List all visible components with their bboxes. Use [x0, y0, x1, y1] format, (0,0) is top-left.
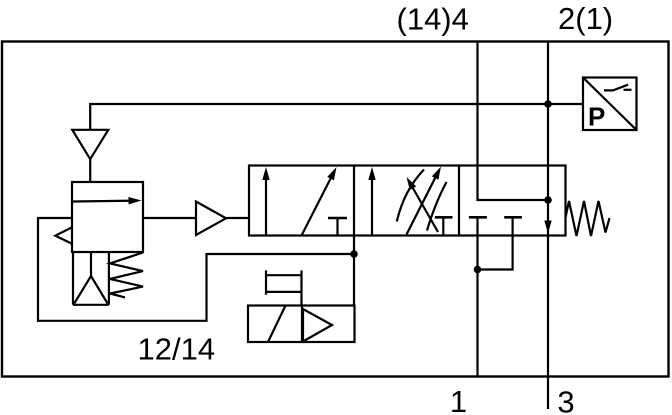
manual override — [266, 270, 302, 305]
wire T3b stem elbow — [478, 217, 513, 269]
wire to pressure switch — [548, 103, 583, 105]
regulator exhaust seat — [73, 252, 109, 305]
pilot triangle — [303, 309, 332, 342]
wire port 2 vertical (x=548) — [547, 42, 549, 409]
cell1 diagonal arrow — [302, 177, 332, 236]
regulator flow arrow — [73, 200, 131, 203]
svg-text:12/14: 12/14 — [138, 332, 216, 367]
solenoid coil slash — [268, 306, 286, 343]
wire port 1 (T3a stem to bottom border) — [476, 217, 478, 376]
cell2 up arrow — [371, 178, 373, 235]
valve divider 1 — [353, 166, 355, 236]
cell3 blocked port T a — [469, 216, 487, 219]
svg-text:2(1): 2(1) — [558, 1, 613, 36]
wire amplifier to valve — [226, 217, 249, 219]
wire port 4 vertical (x=477) — [476, 42, 478, 166]
exhaust filter triangle (top of regulator) — [72, 130, 108, 159]
cell2 blocked port T — [435, 217, 453, 235]
cell2 arrow up-right — [407, 176, 437, 234]
cell3 blocked port T b — [504, 216, 522, 219]
solenoid valve divider — [301, 306, 303, 343]
regulator relief arrowhead — [55, 227, 72, 244]
cell1 up arrow — [265, 178, 267, 235]
cell2 throttle arc right — [427, 182, 447, 231]
node junction in cell3 — [544, 196, 552, 204]
cell1 blocked port T — [328, 218, 347, 235]
wire regulator to amplifier — [143, 217, 196, 219]
valve return spring — [566, 201, 610, 236]
node junction pilot branch — [350, 250, 358, 258]
amplifier triangle — [196, 202, 226, 236]
node junction port1 pilot — [474, 266, 482, 274]
wire triangle to regulator — [89, 159, 91, 182]
wire feedback loop 12/14 — [38, 218, 354, 321]
main valve body — [249, 166, 566, 236]
svg-text:1: 1 — [450, 384, 467, 415]
cell3 internal elbow to port 2 — [478, 166, 549, 201]
solenoid pilot valve body — [248, 306, 355, 343]
regulator spring — [110, 253, 143, 298]
svg-text:3: 3 — [557, 385, 574, 415]
pressure regulator body — [72, 182, 143, 252]
cell2 throttle arc left — [397, 170, 424, 222]
svg-text:(14)4: (14)4 — [397, 2, 469, 37]
wire pilot branch from divider1 — [353, 236, 355, 306]
cell3 down arrowhead — [544, 221, 551, 234]
node junction at 2-line — [544, 100, 552, 108]
valve divider 2 — [458, 166, 460, 236]
cell2 arrow up-left — [412, 187, 438, 233]
svg-text:P: P — [588, 102, 605, 132]
pressure switch PE box — [583, 78, 637, 132]
wire pilot top run — [90, 104, 548, 130]
